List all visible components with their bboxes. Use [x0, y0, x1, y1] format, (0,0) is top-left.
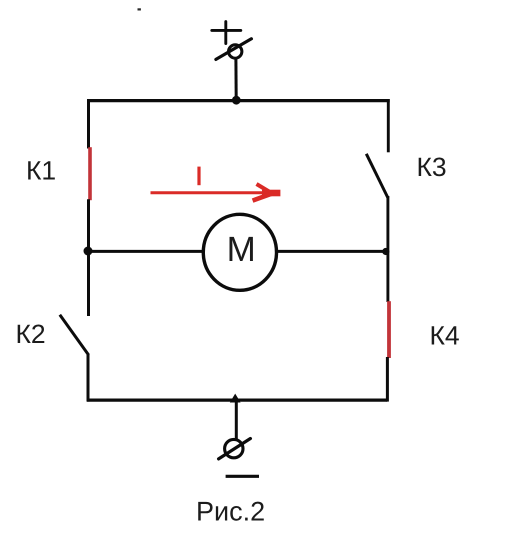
motor label M: [227, 230, 256, 269]
wire from plus terminal to top rail: [234, 59, 237, 100]
wire right lower: [386, 357, 389, 402]
negative supply connector circle: [219, 439, 251, 459]
current label I (red): [197, 167, 200, 186]
node top junction: [232, 96, 241, 105]
label K1: [26, 156, 56, 186]
caption Ris.2: [196, 497, 265, 527]
svg-text:Рис.2: Рис.2: [196, 497, 265, 527]
plus terminal symbol: [212, 22, 241, 44]
node right junction: [381, 247, 390, 256]
wire left upper: [87, 99, 90, 149]
svg-text:К2: К2: [16, 319, 46, 349]
svg-text:M: M: [227, 230, 256, 269]
minus terminal symbol: [226, 475, 259, 478]
wire left lower: [87, 354, 90, 402]
wire middle left segment: [88, 250, 204, 253]
node bottom junction: [230, 394, 241, 403]
wire left middle: [87, 199, 90, 316]
node left junction: [84, 247, 93, 256]
label K3: [417, 152, 447, 182]
switch K1 closed contact (red): [88, 147, 92, 200]
wire from bottom rail to minus terminal: [235, 400, 238, 441]
wire bottom rail: [87, 398, 387, 401]
label K2: [16, 319, 46, 349]
current direction arrow I (red): [151, 184, 281, 201]
svg-text:К1: К1: [26, 156, 56, 186]
wire right upper: [387, 99, 390, 152]
switch K2 open blade: [60, 315, 89, 355]
motor M1 circle: [203, 214, 276, 290]
switch K3 open blade: [366, 154, 388, 198]
wire top rail: [87, 99, 390, 102]
stray mark: [138, 8, 141, 10]
switch K4 closed contact (red): [387, 301, 391, 358]
svg-text:К3: К3: [417, 152, 447, 182]
wire middle right segment: [276, 250, 388, 253]
svg-text:К4: К4: [430, 321, 460, 351]
label K4: [430, 321, 460, 351]
positive supply connector circle: [216, 39, 252, 60]
wire right middle: [386, 196, 389, 302]
